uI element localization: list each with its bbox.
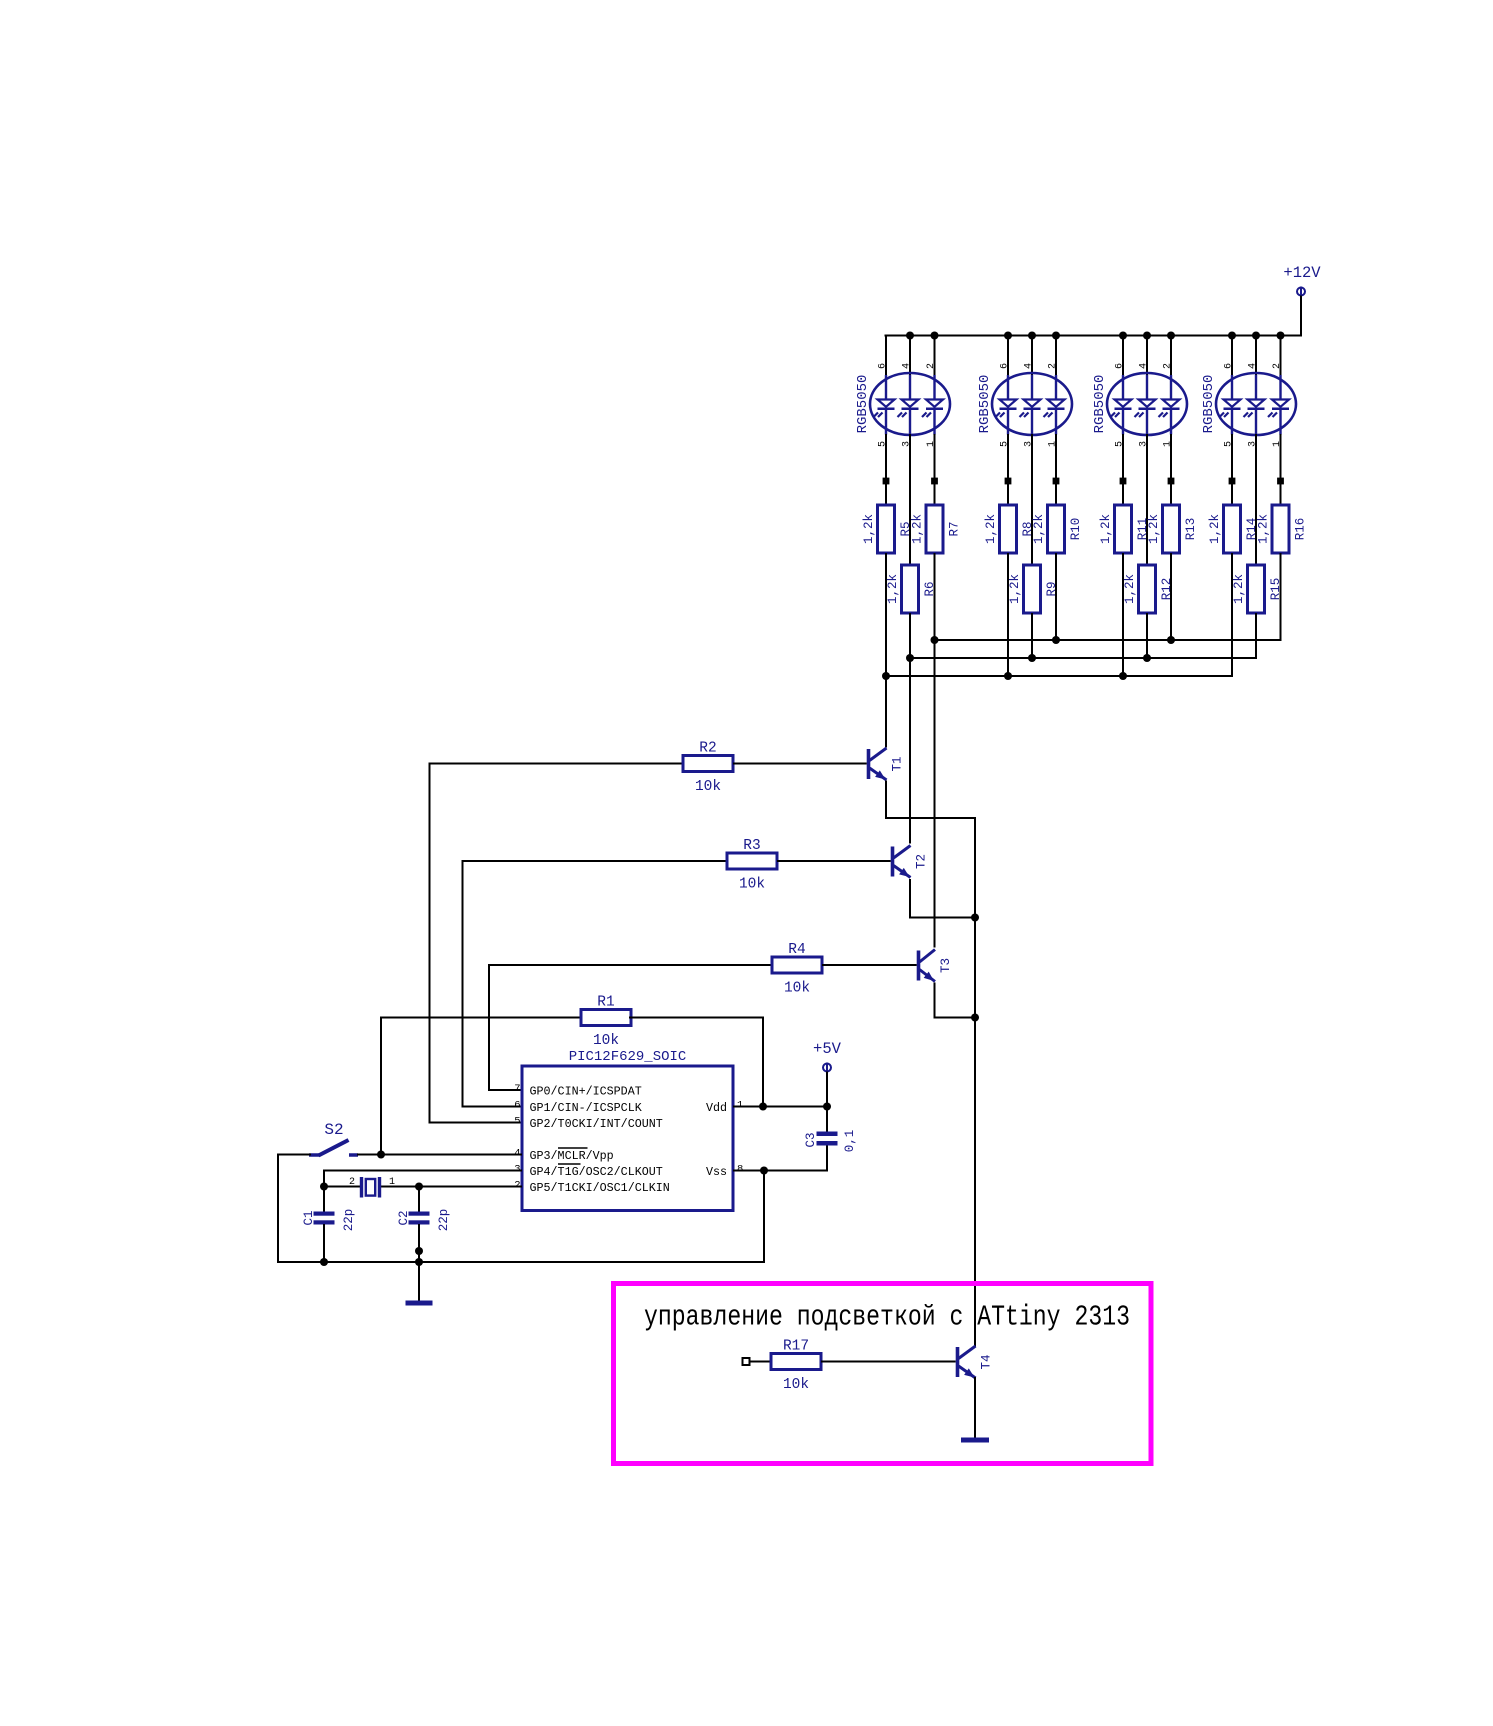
+12V supply terminal [1283, 264, 1321, 297]
svg-text:1,2k: 1,2k [886, 574, 900, 604]
svg-text:1,2k: 1,2k [984, 514, 998, 544]
svg-text:PIC12F629_SOIC: PIC12F629_SOIC [569, 1049, 687, 1065]
wire R15 to green bus [1255, 613, 1257, 659]
resistor R2 10k [683, 741, 733, 796]
junction row3 [1004, 672, 1012, 680]
svg-text:R4: R4 [788, 942, 805, 958]
svg-text:S2: S2 [324, 1121, 343, 1139]
transistor T2 (NPN) [891, 846, 929, 878]
wire ground bus to Vss [763, 1170, 765, 1263]
wire LED3 pin5 to R11 [1122, 434, 1124, 506]
svg-text:6: 6 [1000, 363, 1011, 369]
capacitor C2 22p [397, 1209, 451, 1232]
wire +12V bus [885, 335, 1303, 337]
wire R4 to T3 base [822, 964, 917, 966]
wire GP2 vertical [429, 763, 431, 1124]
junction T3 emitter / common [971, 1014, 979, 1022]
wire GP0 to R4 [489, 964, 773, 966]
svg-text:RGB5050: RGB5050 [855, 375, 871, 434]
capacitor C1 22p [302, 1209, 356, 1232]
svg-text:R7: R7 [948, 521, 962, 536]
junction +12V bus / LED3 pin4 [1143, 332, 1151, 340]
svg-text:R10: R10 [1069, 518, 1083, 541]
transistor T4 (NPN) [956, 1346, 994, 1378]
svg-text:2: 2 [926, 363, 937, 369]
LED module LED1 RGB5050 [855, 363, 950, 447]
wire LED2 pin4 to +12V bus [1031, 335, 1033, 378]
svg-text:1,2k: 1,2k [1232, 574, 1246, 604]
svg-text:T4: T4 [980, 1354, 994, 1369]
wire LED1 pin2 to +12V bus [934, 335, 936, 378]
svg-text:1,2k: 1,2k [1008, 574, 1022, 604]
junction square LED4 pin5 [1229, 478, 1236, 485]
wire LED2 pin1 to R10 [1055, 434, 1057, 506]
wire GP5 pin 2 to crystal [380, 1186, 522, 1188]
ground symbol [406, 1301, 433, 1306]
overline T1G [558, 1163, 581, 1165]
wire LED3 pin6 to +12V bus [1122, 335, 1124, 378]
wire R5 to blue bus [885, 553, 887, 748]
ground symbol T4 [961, 1438, 989, 1443]
wire LED1 pin6 to +12V bus [885, 335, 887, 378]
svg-text:2: 2 [1048, 363, 1059, 369]
resistor R1 10k [581, 995, 631, 1050]
svg-text:7: 7 [514, 1083, 520, 1095]
junction +12V bus / LED3 pin2 [1167, 332, 1175, 340]
svg-text:R13: R13 [1184, 518, 1198, 541]
wire GP0 vertical [488, 964, 490, 1091]
svg-text:2: 2 [1163, 363, 1174, 369]
wire R1 to Vdd net [629, 1017, 764, 1019]
svg-text:4: 4 [1024, 363, 1035, 369]
wire LED2 pin2 to +12V bus [1055, 335, 1057, 378]
junction crystal right / C2 [415, 1183, 423, 1191]
resistor R7 1,2k [911, 505, 962, 553]
resistor R16 1,2k [1257, 505, 1308, 553]
wire R3 to T2 base [777, 860, 891, 862]
wire LED4 pin5 to R14 [1231, 434, 1233, 506]
wire to GP2 pin 5 [430, 1122, 523, 1124]
wire S2 to ground net [277, 1154, 311, 1156]
junction +12V bus / LED2 pin2 [1052, 332, 1060, 340]
junction square LED3 pin1 [1168, 478, 1175, 485]
LED module LED3 RGB5050 [1092, 363, 1187, 447]
wire GP4 to crystal left node [323, 1170, 325, 1188]
svg-text:RGB5050: RGB5050 [1092, 375, 1108, 434]
junction T2 emitter / common [971, 914, 979, 922]
wire LED3 pin1 to R13 [1170, 434, 1172, 506]
junction row3 [1119, 672, 1127, 680]
wire R10 to red bus [1055, 553, 1057, 641]
wire ground net left vertical [277, 1154, 279, 1264]
wire LED3 pin4 to +12V bus [1146, 335, 1148, 378]
wire LED2 pin5 to R8 [1007, 434, 1009, 506]
svg-text:GP4/T1G/OSC2/CLKOUT: GP4/T1G/OSC2/CLKOUT [530, 1165, 663, 1179]
wire LED4 pin1 to R16 [1280, 434, 1282, 506]
wire +12V stem [1300, 296, 1302, 337]
svg-text:6: 6 [1224, 363, 1235, 369]
junction row1 [1052, 636, 1060, 644]
wire bus row 2 (pin3 net) [909, 657, 1257, 659]
wire C1 bottom lead [323, 1224, 325, 1263]
svg-text:C1: C1 [302, 1210, 316, 1225]
resistor R17 10k [771, 1339, 821, 1394]
wire C2 bottom lead [418, 1224, 420, 1263]
transistor T3 (NPN) [917, 950, 953, 982]
svg-text:0,1: 0,1 [843, 1130, 857, 1153]
svg-text:1,2k: 1,2k [1123, 574, 1137, 604]
junction square LED4 pin1 [1277, 478, 1284, 485]
junction row3 [882, 672, 890, 680]
wire +5V stem [826, 1072, 828, 1108]
svg-text:1,2k: 1,2k [1257, 514, 1271, 544]
wire port to R17 [750, 1361, 773, 1363]
junction Vdd / C3 / +5V [823, 1103, 831, 1111]
wire LED4 pin3 to R15 [1255, 434, 1257, 566]
wire LED3 pin2 to +12V bus [1170, 335, 1172, 378]
wire GP1 to R3 [463, 860, 729, 862]
wire R14 to blue bus [1231, 553, 1233, 677]
wire ground stem [418, 1262, 420, 1301]
wire LED2 pin6 to +12V bus [1007, 335, 1009, 378]
svg-text:C2: C2 [397, 1210, 411, 1225]
junction Vss / ground bus [760, 1167, 768, 1175]
wire LED1 pin4 to +12V bus [909, 335, 911, 378]
wire LED4 pin4 to +12V bus [1255, 335, 1257, 378]
capacitor C3 0,1 [804, 1130, 857, 1153]
svg-text:4: 4 [902, 363, 913, 369]
wire T3 emitter to common [935, 983, 977, 1018]
wire C3 top lead [826, 1107, 828, 1133]
wire T4 emitter to ground [974, 1377, 976, 1438]
resistor R5 1,2k [862, 505, 913, 553]
junction C2 / ground bus [415, 1258, 423, 1266]
svg-text:T3: T3 [939, 958, 953, 973]
svg-text:GP5/T1CKI/OSC1/CLKIN: GP5/T1CKI/OSC1/CLKIN [530, 1181, 670, 1195]
svg-text:6: 6 [1115, 363, 1126, 369]
resistor R15 1,2k [1232, 565, 1283, 613]
junction C1 / ground bus [320, 1258, 328, 1266]
resistor R12 1,2k [1123, 565, 1174, 613]
svg-text:управление подсветкой с ATtiny: управление подсветкой с ATtiny 2313 [644, 1301, 1130, 1334]
wire R9 to green bus [1031, 613, 1033, 659]
wire GP2 to R2 [430, 763, 685, 765]
resistor R3 10k [727, 838, 777, 893]
svg-text:C3: C3 [804, 1132, 818, 1147]
resistor R11 1,2k [1099, 505, 1150, 553]
wire GP3 to R1 [381, 1017, 582, 1019]
wire C2 top lead [418, 1187, 420, 1213]
wire C1 top lead [323, 1187, 325, 1213]
svg-text:R1: R1 [597, 995, 614, 1011]
junction square LED2 pin1 [1053, 478, 1060, 485]
wire T1 emitter down [885, 781, 887, 819]
wire ground bus bottom [277, 1261, 765, 1263]
wire GP3 pin 4 to S2 [357, 1154, 522, 1156]
svg-text:22p: 22p [342, 1209, 356, 1232]
svg-text:1,2k: 1,2k [1147, 514, 1161, 544]
wire T2 emitter to common [910, 879, 976, 918]
svg-text:2: 2 [1272, 363, 1283, 369]
crystal Q1 [349, 1177, 395, 1198]
wire LED3 pin3 to R12 [1146, 434, 1148, 566]
wire T1 emitter to common [885, 817, 976, 819]
wire R8 to blue bus [1007, 553, 1009, 677]
junction +12V bus / LED4 pin4 [1252, 332, 1260, 340]
wire bus row 1 (pin1 net) [934, 639, 1282, 641]
resistor R6 1,2k [886, 565, 937, 613]
svg-text:2: 2 [349, 1177, 355, 1188]
svg-text:10k: 10k [784, 981, 810, 997]
wire GP1 vertical [462, 860, 464, 1108]
junction C2 lead [415, 1247, 423, 1255]
junction crystal left / C1 [320, 1183, 328, 1191]
svg-text:4: 4 [1139, 363, 1150, 369]
wire Vss pin 8 [733, 1170, 828, 1172]
resistor R13 1,2k [1147, 505, 1198, 553]
wire R13 to red bus [1170, 553, 1172, 641]
annotation box (magenta) [614, 1284, 1152, 1464]
junction row2 [906, 654, 914, 662]
svg-text:+12V: +12V [1283, 264, 1321, 282]
junction +12V bus / LED1 pin4 [906, 332, 914, 340]
svg-text:4: 4 [1248, 363, 1259, 369]
svg-text:RGB5050: RGB5050 [977, 375, 993, 434]
svg-text:Vdd: Vdd [706, 1101, 727, 1115]
svg-text:R16: R16 [1294, 518, 1308, 541]
svg-text:1,2k: 1,2k [1032, 514, 1046, 544]
wire R12 to green bus [1146, 613, 1148, 659]
svg-text:GP3/MCLR/Vpp: GP3/MCLR/Vpp [530, 1149, 614, 1163]
svg-text:GP1/CIN-/ICSPCLK: GP1/CIN-/ICSPCLK [530, 1101, 642, 1115]
wire R11 to blue bus [1122, 553, 1124, 677]
junction square LED3 pin5 [1120, 478, 1127, 485]
wire Vdd pin 1 [733, 1106, 828, 1108]
IC U1 PIC12F629_SOIC [514, 1049, 743, 1211]
junction row1 [1167, 636, 1175, 644]
svg-text:+5V: +5V [813, 1040, 842, 1058]
svg-text:GP2/T0CKI/INT/COUNT: GP2/T0CKI/INT/COUNT [530, 1117, 663, 1131]
junction +12V bus / LED2 pin6 [1004, 332, 1012, 340]
+5V supply terminal [813, 1040, 842, 1073]
wire R1 to GP3 vertical [380, 1017, 382, 1155]
junction row2 [1143, 654, 1151, 662]
junction square LED1 pin5 [883, 478, 890, 485]
svg-text:R3: R3 [743, 838, 760, 854]
svg-text:6: 6 [514, 1100, 520, 1112]
wire crystal to left node [323, 1186, 362, 1188]
wire R7 to red bus [934, 553, 936, 948]
wire to GP1 pin 6 [463, 1106, 523, 1108]
junction +12V bus / LED2 pin4 [1028, 332, 1036, 340]
svg-text:1,2k: 1,2k [911, 514, 925, 544]
svg-text:1,2k: 1,2k [1208, 514, 1222, 544]
resistor R9 1,2k [1008, 565, 1059, 613]
svg-text:6: 6 [878, 363, 889, 369]
port terminal (R17 input) [743, 1358, 750, 1365]
junction GP3 / R1 [377, 1151, 385, 1159]
svg-text:22p: 22p [437, 1209, 451, 1232]
svg-text:R17: R17 [783, 1339, 809, 1355]
svg-text:10k: 10k [593, 1033, 619, 1049]
svg-text:1: 1 [389, 1177, 395, 1188]
junction row1 [931, 636, 939, 644]
wire bus row 3 (pin5 net) [885, 675, 1233, 677]
LED module LED4 RGB5050 [1201, 363, 1296, 447]
svg-text:R2: R2 [699, 741, 716, 757]
wire LED1 pin1 to R7 [934, 434, 936, 506]
wire common emitter line to T4 collector [974, 817, 976, 1347]
svg-text:10k: 10k [739, 877, 765, 893]
resistor R10 1,2k [1032, 505, 1083, 553]
overline MCLR [558, 1147, 588, 1149]
resistor R8 1,2k [984, 505, 1035, 553]
wire to GP0 pin 7 [489, 1089, 522, 1091]
junction +12V bus / LED1 pin2 [931, 332, 939, 340]
wire R17 to T4 base [821, 1361, 956, 1363]
resistor R14 1,2k [1208, 505, 1259, 553]
svg-text:1,2k: 1,2k [1099, 514, 1113, 544]
junction square LED2 pin5 [1005, 478, 1012, 485]
wire C3 bottom lead [826, 1146, 828, 1172]
wire GP4 pin 3 [324, 1170, 522, 1172]
svg-text:T2: T2 [915, 854, 929, 869]
svg-text:5: 5 [514, 1116, 520, 1128]
wire R16 to red bus [1280, 553, 1282, 641]
junction row2 [1028, 654, 1036, 662]
svg-text:10k: 10k [695, 779, 721, 795]
wire LED2 pin3 to R9 [1031, 434, 1033, 566]
svg-text:GP0/CIN+/ICSPDAT: GP0/CIN+/ICSPDAT [530, 1084, 642, 1098]
junction square LED1 pin1 [931, 478, 938, 485]
transistor T1 (NPN) [867, 748, 905, 780]
svg-text:1,2k: 1,2k [862, 514, 876, 544]
svg-text:10k: 10k [783, 1377, 809, 1393]
svg-text:T1: T1 [891, 756, 905, 771]
junction +12V bus / LED4 pin2 [1277, 332, 1285, 340]
junction Vdd / R1 [759, 1103, 767, 1111]
wire R2 to T1 base [733, 763, 867, 765]
wire R6 to green bus [909, 613, 911, 844]
wire LED4 pin6 to +12V bus [1231, 335, 1233, 378]
wire LED1 pin5 to R5 [885, 434, 887, 506]
svg-text:RGB5050: RGB5050 [1201, 375, 1217, 434]
junction +12V bus / LED4 pin6 [1228, 332, 1236, 340]
junction +12V bus / LED3 pin6 [1119, 332, 1127, 340]
wire LED4 pin2 to +12V bus [1280, 335, 1282, 378]
wire LED1 pin3 to R6 [909, 434, 911, 566]
switch S2 [309, 1121, 358, 1156]
LED module LED2 RGB5050 [977, 363, 1072, 447]
resistor R4 10k [772, 942, 822, 997]
svg-text:Vss: Vss [706, 1165, 727, 1179]
wire R1 to Vdd vertical [762, 1018, 764, 1107]
